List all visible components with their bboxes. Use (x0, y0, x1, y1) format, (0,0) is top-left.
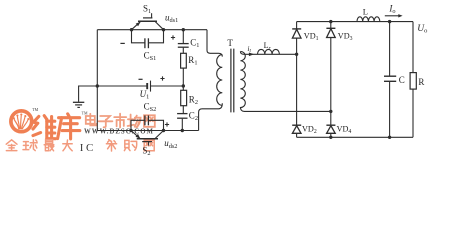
node C1 top (182, 28, 185, 31)
capacitor CS2 (131, 115, 164, 130)
node S1 right (162, 28, 165, 31)
svg-text:Io: Io (388, 3, 395, 15)
svg-text:Uo: Uo (417, 24, 427, 35)
wire bridge bottom rail (297, 136, 413, 138)
node bridge bottom right branch (329, 136, 332, 139)
node S2 right (162, 129, 165, 132)
wire left rail (96, 30, 98, 131)
resistor R1 (181, 53, 187, 68)
wire bottom rail left section (97, 130, 198, 132)
svg-text:VD2: VD2 (302, 124, 317, 134)
svg-text:S2: S2 (142, 145, 150, 155)
svg-text:uds1: uds1 (165, 13, 178, 25)
transistor S2 (131, 131, 164, 146)
svg-text:R2: R2 (189, 95, 198, 107)
inductor Lr (258, 49, 280, 54)
svg-text:WWW.DZSC.COM: WWW.DZSC.COM (84, 128, 154, 135)
minus sign (U1) (139, 78, 143, 80)
node AC left (secondary top) (295, 53, 298, 56)
svg-text:VD3: VD3 (338, 32, 353, 42)
node bridge top right (329, 20, 332, 23)
svg-text:L: L (363, 7, 368, 17)
transformer secondary top lead / wire to bridge (240, 52, 296, 55)
svg-text:Lr: Lr (264, 41, 272, 51)
WATERMARK (6, 107, 155, 154)
diode VD4 (326, 125, 335, 133)
transformer T secondary winding (240, 51, 245, 107)
svg-text:CS1: CS1 (144, 51, 157, 63)
wire bridge top rail (297, 21, 413, 23)
svg-text:it: it (247, 44, 251, 54)
wire top rail left section (97, 29, 207, 31)
node C2 bottom (181, 129, 184, 132)
arrow it on secondary wire (249, 53, 254, 57)
source U1 battery plates (147, 81, 150, 92)
transformer secondary bottom lead / wire to bridge (240, 107, 330, 111)
capacitor C (384, 22, 396, 138)
svg-text:IC: IC (80, 142, 96, 154)
wire middle rail (U1 row) (97, 85, 183, 87)
transformer core (231, 49, 234, 113)
node filter cap bottom (388, 136, 391, 139)
resistor R (410, 22, 416, 138)
transformer T primary winding (217, 55, 223, 106)
transformer primary bottom lead (199, 103, 223, 130)
bridge left branch wires (296, 22, 298, 138)
wire R1 to mid rail (182, 68, 184, 86)
node junction left-mid (96, 84, 99, 87)
ground (73, 86, 97, 107)
node S1 left (130, 28, 133, 31)
node S2 left (129, 129, 132, 132)
svg-text:C1: C1 (190, 38, 199, 50)
diode VD2 (292, 125, 301, 133)
plus sign (U1) (160, 76, 164, 80)
node AC right (secondary bottom) (329, 110, 332, 113)
svg-text:C2: C2 (189, 110, 198, 122)
svg-text:uds2: uds2 (164, 138, 177, 150)
node mid rail right (182, 84, 185, 87)
svg-text:CS2: CS2 (144, 102, 157, 114)
node filter cap top (388, 20, 391, 23)
bridge right branch wires (330, 22, 332, 138)
svg-text:TM: TM (32, 107, 38, 112)
minus sign (CS1) (120, 42, 124, 44)
svg-text:C: C (399, 75, 405, 85)
svg-text:R: R (418, 77, 424, 87)
capacitor C1 (178, 30, 189, 54)
svg-text:S1: S1 (143, 4, 151, 15)
diode VD1 (292, 29, 301, 38)
svg-text:VD4: VD4 (337, 124, 352, 134)
svg-text:R1: R1 (188, 55, 197, 66)
inductor L (357, 17, 380, 22)
transformer primary top lead (207, 30, 222, 57)
resistor R2 (181, 86, 187, 113)
svg-text:VD1: VD1 (304, 32, 319, 42)
capacitor C2 (177, 114, 187, 131)
svg-text:U1: U1 (140, 89, 150, 101)
plus sign (C1) (171, 35, 175, 39)
svg-text:TM: TM (82, 110, 88, 115)
plus sign (C2) (165, 122, 169, 126)
arrow Io (385, 14, 403, 17)
capacitor CS1 (132, 30, 164, 49)
transistor S1 (132, 13, 164, 30)
diode VD3 (326, 28, 335, 37)
svg-text:T: T (227, 38, 233, 48)
